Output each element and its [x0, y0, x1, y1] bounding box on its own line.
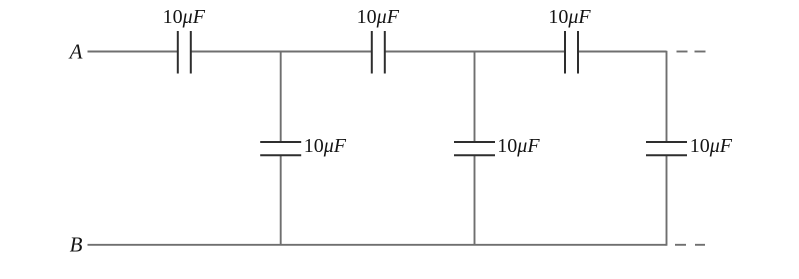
- svg-text:10μF: 10μF: [163, 6, 206, 28]
- svg-text:10μF: 10μF: [690, 135, 733, 157]
- svg-text:10μF: 10μF: [497, 135, 540, 157]
- svg-text:10μF: 10μF: [548, 6, 591, 28]
- svg-text:A: A: [68, 40, 83, 64]
- svg-text:B: B: [70, 233, 83, 257]
- svg-text:10μF: 10μF: [304, 135, 347, 157]
- svg-text:10μF: 10μF: [357, 6, 400, 28]
